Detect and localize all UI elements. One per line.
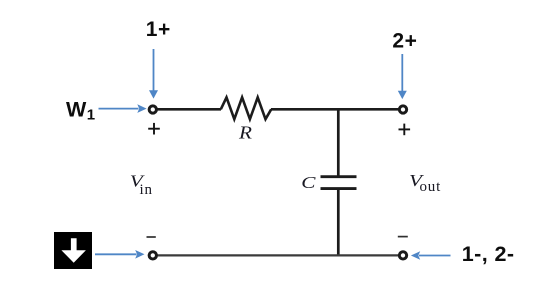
- wire capacitor branch lower: [337, 189, 340, 257]
- arrow from W1 to node: [99, 104, 147, 113]
- wire top-left: node 1+ to resistor: [158, 108, 222, 111]
- arrow from 1+ down to node: [149, 49, 158, 99]
- capacitor C: [321, 177, 357, 189]
- svg-text:2+: 2+: [392, 29, 417, 52]
- arrow from 1-, 2- to bottom-right node: [411, 251, 451, 260]
- svg-text:out: out: [420, 179, 442, 195]
- plus sign under node 2+: [399, 124, 411, 136]
- plus sign under node 1+: [148, 123, 160, 135]
- wire bottom: [158, 254, 399, 256]
- ground reference icon (black square with white down arrow): [54, 232, 92, 269]
- wire capacitor branch upper: [337, 108, 340, 176]
- resistor R: [221, 97, 271, 119]
- node terminal bottom-left: [149, 252, 156, 259]
- minus sign above bottom-left node: [147, 236, 156, 238]
- svg-text:C: C: [301, 174, 315, 193]
- node terminal top-left: [149, 106, 156, 113]
- node terminal bottom-right: [399, 252, 406, 259]
- svg-text:R: R: [238, 123, 252, 143]
- wire top-right: resistor to node 2+: [271, 108, 399, 111]
- svg-text:1+: 1+: [146, 18, 171, 41]
- svg-text:in: in: [140, 182, 153, 198]
- arrow from ground icon to bottom-left node: [95, 250, 145, 259]
- svg-text:1-, 2-: 1-, 2-: [462, 242, 515, 266]
- arrow from 2+ down to node: [398, 54, 407, 99]
- minus sign above bottom-right node: [398, 236, 408, 238]
- node terminal top-right: [399, 106, 406, 113]
